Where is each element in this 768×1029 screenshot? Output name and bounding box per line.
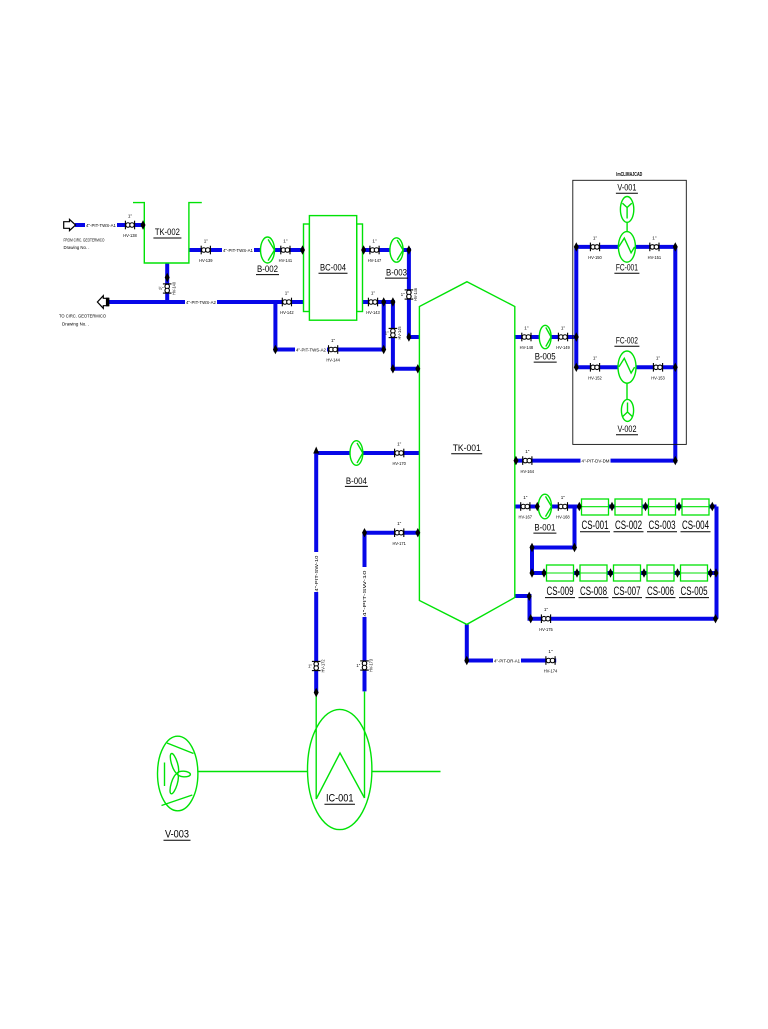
svg-text:BC-004: BC-004 [320, 263, 346, 273]
svg-text:IC-001: IC-001 [326, 793, 354, 805]
node J3 [361, 245, 366, 254]
node J2 [300, 245, 305, 254]
svg-text:B-003: B-003 [386, 268, 407, 278]
label FC-002 [614, 336, 639, 347]
pump B-002 [261, 237, 275, 263]
svg-text:4"-PIT-TWS-A1: 4"-PIT-TWS-A1 [86, 223, 116, 228]
label CS-004 [681, 520, 711, 532]
label B-005 [534, 352, 557, 363]
svg-text:1": 1" [372, 238, 377, 243]
valve HV-153 [651, 356, 665, 381]
valve HV-170 [392, 441, 406, 466]
svg-text:HV-170: HV-170 [392, 461, 406, 466]
pump B-005 [539, 325, 551, 348]
svg-text:HV-173: HV-173 [369, 658, 374, 672]
pipe label 4&#34;-PIT-SW-10 (vertical) [362, 567, 367, 617]
node J23 [535, 502, 540, 511]
pipe bottom return to TK-001 [515, 596, 717, 619]
node J39 [528, 614, 533, 623]
pipe from inlet arrow to TK-002 [75, 223, 144, 227]
svg-text:HV-142: HV-142 [280, 310, 294, 315]
svg-text:CS-007: CS-007 [614, 586, 641, 598]
svg-text:1": 1" [283, 238, 288, 243]
silencer CS-009 [547, 565, 574, 581]
label CS-005 [679, 586, 709, 598]
svg-text:1": 1" [561, 495, 566, 500]
svg-text:HV-139: HV-139 [199, 258, 213, 263]
node J14 [362, 528, 367, 537]
node J17 [574, 332, 579, 341]
silencer CS-006 [647, 565, 674, 581]
svg-text:HV-172: HV-172 [320, 659, 325, 673]
svg-text:HV-143: HV-143 [366, 310, 380, 315]
svg-text:HV-171: HV-171 [392, 541, 406, 546]
valve HV-147 [368, 238, 382, 263]
connector V-003 to IC-001 [198, 771, 308, 773]
svg-text:HV-174: HV-174 [544, 669, 558, 674]
valve HV-174 [544, 649, 558, 674]
valve HV-167 [519, 495, 533, 520]
node J38 [714, 568, 719, 577]
svg-text:FC-001: FC-001 [616, 263, 638, 273]
node J8 [381, 345, 386, 354]
svg-text:CS-009: CS-009 [547, 586, 574, 598]
valve HV-152 [588, 356, 602, 381]
node J4 [406, 245, 411, 254]
svg-text:½": ½" [159, 286, 164, 291]
pipe label 4&#34;-PIT-SW-10 (vertical) [314, 552, 319, 592]
svg-text:1": 1" [652, 235, 657, 240]
svg-text:CS-001: CS-001 [582, 520, 609, 532]
node J30 [530, 543, 535, 552]
svg-text:1": 1" [593, 356, 598, 361]
svg-text:1": 1" [385, 331, 389, 336]
node J21 [673, 456, 678, 465]
valve HV-175 [539, 607, 553, 632]
node J9 [381, 297, 386, 306]
valve HV-139 [199, 238, 213, 263]
svg-text:HV-146: HV-146 [413, 287, 418, 301]
svg-text:1": 1" [525, 449, 530, 454]
label B-001 [533, 523, 556, 534]
valve HV-150 [588, 235, 602, 260]
svg-text:HV-153: HV-153 [651, 376, 665, 381]
pipe through FC-001 [576, 245, 675, 249]
vessel TK-001 [419, 282, 514, 625]
svg-text:4"-PIT-SW-10: 4"-PIT-SW-10 [362, 570, 367, 617]
label B-003 [385, 268, 408, 279]
pipe BC-004 right lower outlet to TK-001 inlet [363, 302, 420, 369]
pipe header left inside fan box [574, 247, 578, 367]
svg-text:HV-149: HV-149 [556, 345, 570, 350]
svg-text:ImCLIMAJCAD: ImCLIMAJCAD [616, 172, 642, 178]
tank TK-002 [133, 203, 202, 263]
node J5 [406, 332, 411, 341]
node J25 [610, 502, 615, 511]
valve HV-148 [520, 325, 534, 350]
node J19 [673, 242, 678, 251]
svg-text:HV-150: HV-150 [588, 255, 602, 260]
node J22 [514, 456, 519, 465]
fan V-003 [158, 736, 198, 811]
connector IC-001 outlet [372, 771, 441, 773]
svg-text:HV-168: HV-168 [556, 515, 570, 520]
svg-text:1": 1" [356, 663, 360, 668]
svg-text:HV-152: HV-152 [588, 376, 602, 381]
silencer CS-004 [682, 499, 709, 515]
label B-004 [345, 476, 368, 487]
node J36 [675, 568, 680, 577]
svg-text:CS-004: CS-004 [682, 520, 709, 532]
svg-text:HV-140: HV-140 [171, 281, 176, 295]
pipe TK-002 bottom drain [165, 263, 169, 302]
node J15 [314, 688, 319, 697]
pump B-001 [538, 494, 551, 519]
condenser IC-001 [308, 692, 372, 830]
svg-text:1": 1" [401, 292, 405, 297]
valve HV-151 [648, 235, 662, 260]
svg-text:4"-PIT-DV-DM: 4"-PIT-DV-DM [582, 458, 610, 463]
label CS-006 [646, 586, 676, 598]
svg-text:B-005: B-005 [535, 352, 556, 362]
svg-text:1": 1" [524, 325, 529, 330]
svg-text:1": 1" [285, 290, 290, 295]
valve HV-149 [556, 325, 570, 350]
label CS-002 [614, 520, 644, 532]
valve HV-171 [392, 521, 406, 546]
svg-text:1": 1" [523, 495, 528, 500]
node J27 [677, 502, 682, 511]
svg-text:TK-001: TK-001 [453, 443, 481, 454]
node J34 [608, 568, 613, 577]
valve HV-141 [279, 238, 293, 263]
valve HV-172 [308, 659, 325, 673]
pipe return line to outlet arrow [109, 300, 304, 304]
svg-text:1": 1" [128, 213, 133, 218]
pump B-004 [350, 441, 363, 466]
svg-text:CS-003: CS-003 [649, 520, 676, 532]
pipe TK-002 outlet to BC-004 [189, 248, 304, 252]
fan coil FC-002 [618, 351, 636, 383]
svg-text:4"-PIT-SW-10: 4"-PIT-SW-10 [314, 555, 319, 592]
node J28 [710, 502, 715, 511]
svg-text:1": 1" [561, 325, 566, 330]
svg-text:B-002: B-002 [257, 264, 278, 274]
svg-text:B-001: B-001 [534, 523, 555, 533]
label CS-003 [647, 520, 677, 532]
svg-text:HV-144: HV-144 [326, 358, 340, 363]
svg-text:4"-PIT-TWS-A2: 4"-PIT-TWS-A2 [296, 347, 326, 352]
node J35 [642, 568, 647, 577]
svg-text:HV-148: HV-148 [520, 345, 534, 350]
valve HV-138 [123, 213, 137, 238]
label V-003 [164, 829, 191, 841]
pipe B-004 suction line into TK-001 [316, 451, 419, 455]
pipe right header down and back to TK-001 [515, 247, 676, 461]
pipe label 4&#34;-PIT-DV-DM [581, 458, 611, 463]
pipe label 4&#34;-PIT-TWS-A2 [185, 299, 217, 304]
node J18 [574, 363, 579, 372]
svg-text:FROM CIRC. GEOTERMICO: FROM CIRC. GEOTERMICO [64, 238, 105, 244]
valve HV-142 [280, 290, 294, 315]
pipe vertical to IC-001 right [363, 533, 367, 692]
label V-002 [616, 424, 638, 435]
silencer CS-008 [580, 565, 607, 581]
node J29 [572, 543, 577, 552]
svg-text:1": 1" [548, 649, 553, 654]
pipe label 4&#34;-PIT-TWS-A1 [222, 247, 254, 252]
node J40 [713, 614, 718, 623]
label CS-001 [580, 520, 610, 532]
svg-text:HV-141: HV-141 [279, 258, 293, 263]
svg-text:CS-008: CS-008 [580, 586, 607, 598]
pipe branch down from return line [275, 302, 383, 350]
label BC-004 [319, 263, 348, 274]
svg-text:TO CIRC. GEOTERMICO: TO CIRC. GEOTERMICO [59, 314, 106, 320]
pipe label 4&#34;-PIT-TWS-A2 [295, 347, 327, 352]
svg-text:B-004: B-004 [346, 476, 367, 486]
pipe jog row1 to row2 [532, 507, 575, 574]
label CS-009 [545, 586, 575, 598]
connector FC-002 to V-002 [626, 383, 628, 399]
svg-text:1": 1" [397, 521, 402, 526]
pipe riser from HV-144 line [382, 302, 386, 350]
label from circ [64, 238, 105, 251]
label B-002 [256, 264, 279, 275]
pump B-003 [390, 238, 403, 262]
svg-text:HV-175: HV-175 [539, 627, 553, 632]
svg-text:HV-138: HV-138 [123, 233, 137, 238]
pipe TK-001 to B-005 [515, 335, 577, 339]
svg-text:4"-PIT-TWS-A2: 4"-PIT-TWS-A2 [186, 300, 216, 305]
pipe label 4&#34;-PIT-DR-A1 [493, 658, 521, 663]
svg-text:4"-PIT-DR-A1: 4"-PIT-DR-A1 [494, 658, 520, 663]
pipe vertical to IC-001 left [314, 453, 318, 693]
pipe TK-001 bottom drain [467, 624, 556, 660]
label FC-001 [614, 263, 639, 274]
svg-text:HV-164: HV-164 [521, 469, 535, 474]
node J37 [708, 568, 713, 577]
fan enclosure box [573, 180, 687, 444]
svg-text:TK-002: TK-002 [155, 227, 180, 237]
svg-text:1": 1" [397, 441, 402, 446]
svg-text:4"-PIT-TWS-A1: 4"-PIT-TWS-A1 [223, 248, 253, 253]
connector V-001 to FC-001 [626, 222, 628, 232]
valve HV-145 [385, 326, 402, 340]
node J31 [530, 568, 535, 577]
label to circ [59, 314, 106, 328]
silencer CS-007 [614, 565, 641, 581]
node J32 [542, 568, 547, 577]
outlet arrow (to circ. geotermico) [97, 296, 109, 309]
svg-text:CS-002: CS-002 [615, 520, 642, 532]
inlet arrow (from circ. geotermico) [64, 219, 76, 230]
node J11 [390, 364, 395, 373]
pipe TK-001 lower left inlet [365, 531, 420, 535]
node J7 [273, 345, 278, 354]
svg-text:CS-006: CS-006 [647, 586, 674, 598]
node J10 [390, 297, 395, 306]
svg-text:1": 1" [204, 238, 209, 243]
node J26 [643, 502, 648, 511]
valve HV-164 [521, 449, 535, 474]
blower BC-004 [304, 216, 363, 321]
svg-text:1": 1" [544, 607, 549, 612]
pipe right drop CS rows [715, 507, 719, 619]
valve HV-173 [356, 658, 373, 672]
pipe TK-001 to B-001 and CS row 1 [515, 505, 717, 509]
svg-text:Drawing No. .: Drawing No. . [64, 245, 90, 251]
node J13 [415, 528, 420, 537]
svg-text:HV-145: HV-145 [397, 326, 402, 340]
node J16 [574, 242, 579, 251]
label TK-002 [153, 227, 181, 238]
svg-text:Drawing No. .: Drawing No. . [62, 322, 89, 328]
valve HV-146 [401, 287, 418, 301]
svg-text:1": 1" [593, 235, 598, 240]
label CS-007 [612, 586, 642, 598]
fan coil FC-001 [618, 232, 635, 263]
pipe CS row 2 [532, 571, 717, 575]
fan V-001 [620, 197, 633, 223]
silencer CS-001 [582, 499, 609, 515]
node J42 [464, 656, 469, 665]
svg-text:FC-002: FC-002 [616, 336, 638, 346]
valve HV-143 [366, 290, 380, 315]
svg-text:HV-167: HV-167 [519, 515, 533, 520]
node J6 [165, 273, 170, 282]
silencer CS-002 [615, 499, 642, 515]
node J1 [141, 220, 146, 229]
svg-text:1": 1" [331, 338, 336, 343]
svg-text:1": 1" [371, 290, 376, 295]
valve HV-144 [326, 338, 340, 363]
svg-text:HV-151: HV-151 [648, 255, 662, 260]
valve HV-140 [159, 281, 177, 295]
silencer CS-003 [649, 499, 676, 515]
node J20 [673, 363, 678, 372]
svg-text:V-001: V-001 [617, 183, 636, 193]
fan V-002 [621, 399, 633, 421]
svg-text:1": 1" [656, 356, 661, 361]
node J41 [527, 592, 532, 601]
label V-001 [616, 183, 638, 194]
svg-text:HV-147: HV-147 [368, 258, 382, 263]
node J33 [575, 568, 580, 577]
node J12 [415, 364, 420, 373]
pipe BC-004 to B-003 and down to TK-001 upper inlet [363, 250, 420, 337]
label CS-008 [579, 586, 609, 598]
label TK-001 [451, 443, 482, 454]
pipe label 4&#34;-PIT-TWS-A1 [85, 222, 117, 227]
valve HV-168 [556, 495, 570, 520]
silencer CS-005 [681, 565, 708, 581]
pipe through FC-002 [576, 365, 675, 369]
label IC-001 [324, 793, 355, 805]
svg-text:V-003: V-003 [165, 829, 189, 841]
flow arrow at B-004 elbow [313, 447, 319, 454]
svg-text:CS-005: CS-005 [681, 586, 708, 598]
svg-text:1": 1" [308, 664, 312, 669]
svg-text:V-002: V-002 [618, 424, 637, 434]
node J24 [577, 502, 582, 511]
